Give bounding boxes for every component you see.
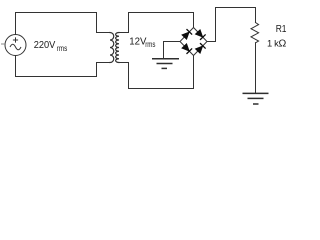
AC source sine wave: [10, 44, 21, 50]
resistor R1 zigzag: [251, 23, 259, 43]
wire secondary bottom to bridge bottom vertex: [129, 56, 194, 89]
wire secondary top terminal: [119, 32, 129, 34]
diode D1 top-left (anode left vertex, cathode top vertex): [182, 29, 192, 39]
ground GND2 (below R1): [243, 93, 269, 104]
transformer T1 secondary winding: [116, 33, 119, 63]
AC source left tick: [1, 43, 6, 45]
diode D2 top-right (anode top vertex, cathode right vertex): [195, 29, 205, 39]
wire primary loop bottom: primary winding bottom to source bottom: [16, 56, 111, 77]
diode D4 bottom-right (anode bottom vertex, cathode right vertex): [195, 43, 205, 53]
svg-text:rms: rms: [57, 43, 68, 53]
diode D3 bottom-left (anode left vertex, cathode bottom vertex): [182, 43, 192, 53]
wire bridge left vertex to ground stub: [164, 42, 181, 59]
wire primary loop top: source top to primary winding top: [16, 13, 111, 35]
wire secondary bottom terminal: [119, 62, 129, 64]
svg-text:12V: 12V: [129, 36, 147, 47]
svg-text:rms: rms: [145, 40, 155, 49]
svg-text:R1: R1: [276, 24, 287, 35]
wire secondary top to bridge top vertex: [129, 13, 194, 33]
ground GND1 (bridge left vertex): [152, 59, 179, 69]
wire bridge right vertex to R1 top: [207, 8, 256, 42]
transformer T1 primary winding: [110, 33, 114, 63]
wire R1 bottom to ground: [255, 43, 257, 93]
AC source plus sign: [13, 37, 18, 42]
bridge diamond edges: [180, 28, 207, 56]
AC source V1 circle: [5, 35, 26, 56]
svg-text:220V: 220V: [34, 40, 56, 51]
svg-text:1 kΩ: 1 kΩ: [267, 38, 286, 50]
